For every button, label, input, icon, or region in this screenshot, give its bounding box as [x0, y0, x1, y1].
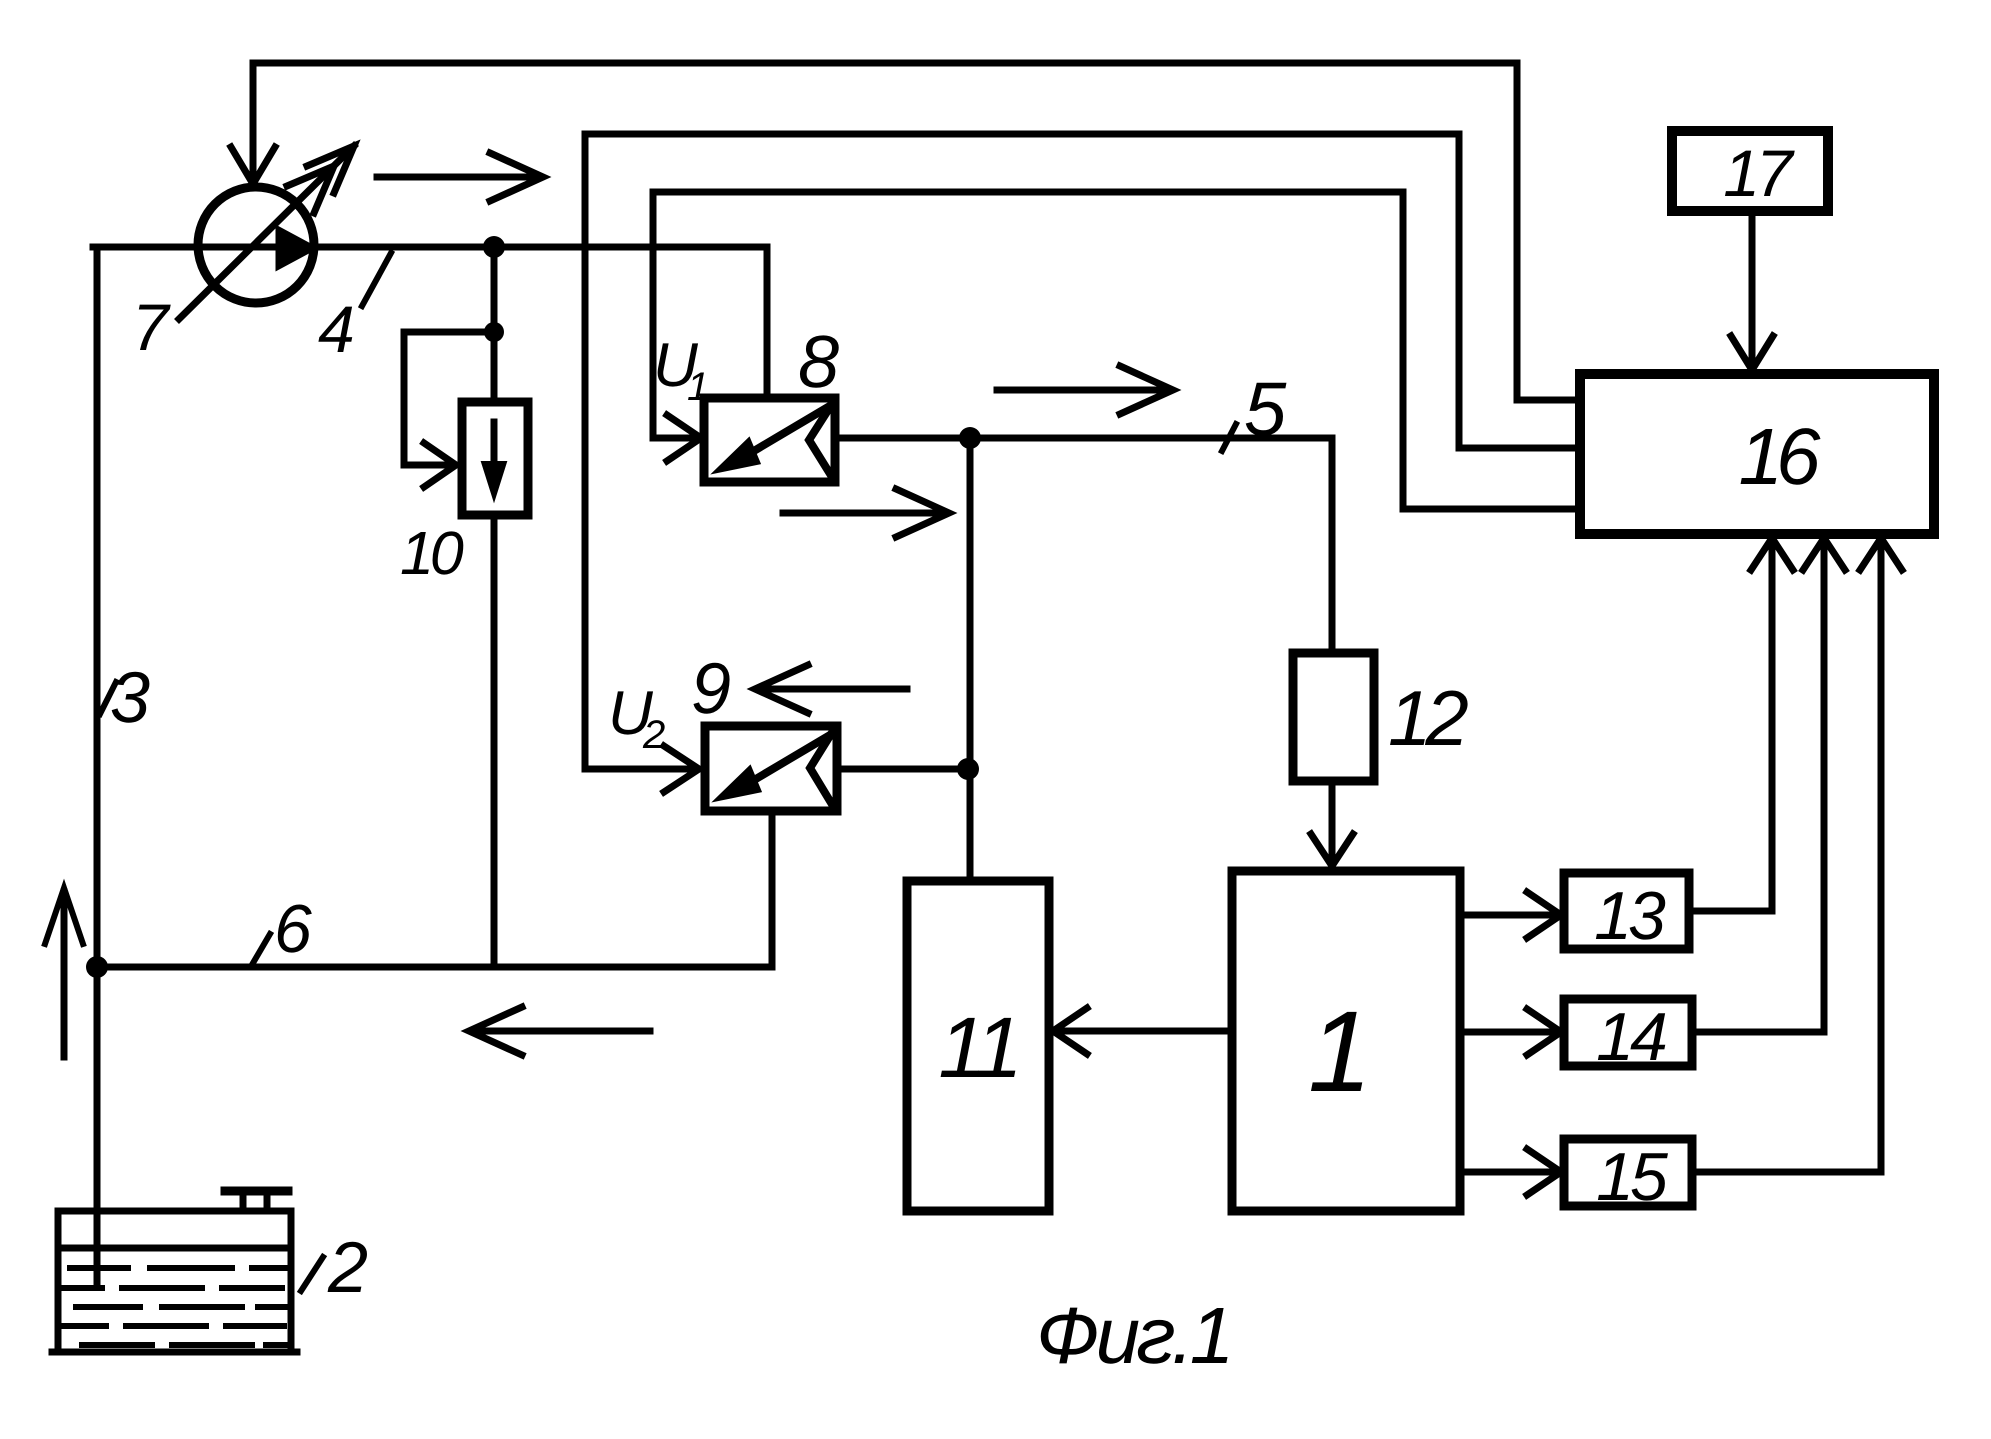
svg-text:2: 2 — [642, 713, 665, 757]
svg-text:4: 4 — [318, 292, 355, 366]
svg-text:17: 17 — [1723, 136, 1795, 210]
svg-text:11: 11 — [938, 1000, 1017, 1096]
svg-text:6: 6 — [274, 891, 312, 967]
svg-text:14: 14 — [1596, 999, 1666, 1075]
svg-text:1: 1 — [687, 365, 709, 409]
svg-text:7: 7 — [132, 290, 171, 364]
svg-text:2: 2 — [327, 1228, 368, 1308]
svg-text:8: 8 — [798, 320, 839, 403]
svg-text:16: 16 — [1739, 412, 1821, 501]
svg-text:3: 3 — [110, 658, 150, 738]
svg-text:15: 15 — [1596, 1139, 1668, 1215]
svg-text:Фиг.1: Фиг.1 — [1036, 1291, 1230, 1380]
svg-text:1: 1 — [1308, 988, 1372, 1116]
svg-text:5: 5 — [1244, 367, 1287, 452]
svg-text:13: 13 — [1594, 878, 1666, 954]
svg-text:9: 9 — [691, 649, 731, 729]
svg-text:12: 12 — [1388, 674, 1468, 762]
svg-text:10: 10 — [400, 519, 464, 587]
